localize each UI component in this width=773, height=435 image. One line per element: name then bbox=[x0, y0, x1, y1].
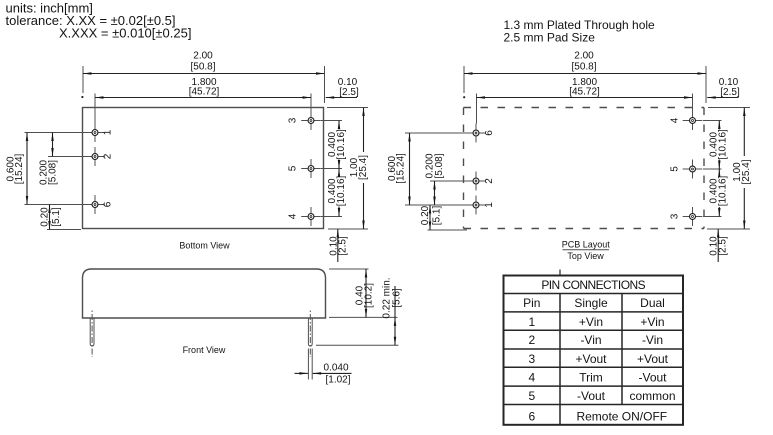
pin 4 (pcb layout) bbox=[683, 111, 703, 130]
svg-text:2.5 mm Pad Size: 2.5 mm Pad Size bbox=[504, 31, 596, 45]
dimension 0.600 pcb layout left bbox=[387, 133, 471, 205]
pin 5 (pcb layout) bbox=[683, 160, 703, 179]
svg-text:[2.5]: [2.5] bbox=[339, 87, 359, 98]
svg-text:2: 2 bbox=[103, 153, 114, 159]
front view left pin bbox=[90, 310, 94, 358]
svg-text:0.400[10.16]: 0.400[10.16] bbox=[327, 175, 347, 206]
svg-text:Top View: Top View bbox=[567, 251, 604, 261]
dimension 0.22 min front view bbox=[316, 277, 403, 345]
units/tolerance note bbox=[6, 1, 192, 41]
svg-text:Front View: Front View bbox=[183, 345, 226, 355]
svg-text:6: 6 bbox=[103, 201, 114, 207]
svg-text:[45.72]: [45.72] bbox=[189, 87, 220, 98]
front view right pin bbox=[308, 310, 312, 358]
svg-text:6: 6 bbox=[484, 130, 495, 136]
svg-text:Bottom View: Bottom View bbox=[179, 241, 230, 251]
dimension 0.200 bottom view left bbox=[39, 133, 90, 186]
svg-text:0.600[15.24]: 0.600[15.24] bbox=[387, 153, 407, 184]
dimension 0.200 pcb layout left bbox=[424, 153, 471, 205]
svg-text:1: 1 bbox=[484, 202, 495, 208]
dimension 0.10 bottom-right bottom view bbox=[328, 229, 348, 262]
svg-text:0.400[10.16]: 0.400[10.16] bbox=[708, 175, 728, 206]
svg-text:2.00: 2.00 bbox=[574, 51, 594, 62]
pin 4 (bottom view) bbox=[301, 207, 321, 226]
svg-text:[45.72]: [45.72] bbox=[569, 87, 600, 98]
svg-text:0.40[10.2]: 0.40[10.2] bbox=[354, 283, 374, 308]
svg-text:4: 4 bbox=[288, 213, 299, 219]
pin 6 (pcb layout) bbox=[466, 124, 486, 143]
svg-text:PIN CONNECTIONS: PIN CONNECTIONS bbox=[541, 278, 645, 292]
table header row bbox=[523, 296, 665, 310]
svg-text:1.00[25.4]: 1.00[25.4] bbox=[732, 159, 752, 184]
svg-text:0.20[5.1]: 0.20[5.1] bbox=[420, 205, 443, 225]
svg-text:5: 5 bbox=[528, 389, 535, 403]
svg-text:-Vout: -Vout bbox=[577, 389, 606, 403]
svg-text:1.00[25.4]: 1.00[25.4] bbox=[349, 155, 369, 180]
svg-text:0.22 min.[5.6]: 0.22 min.[5.6] bbox=[382, 277, 403, 318]
table row pin 2 bbox=[528, 333, 663, 347]
svg-text:[50.8]: [50.8] bbox=[571, 62, 596, 73]
dimension 1.800 pcb layout bbox=[463, 77, 692, 124]
svg-text:[1.02]: [1.02] bbox=[325, 375, 350, 386]
svg-text:0.600[15.24]: 0.600[15.24] bbox=[5, 153, 25, 184]
pin 1 (bottom view) bbox=[85, 123, 105, 142]
dimension 0.40 front view bbox=[329, 269, 398, 317]
dimension 0.10 bottom-right pcb layout bbox=[709, 229, 729, 262]
dimension 0.20 pcb layout left bbox=[420, 205, 467, 230]
table row pin 5 bbox=[528, 389, 675, 403]
table row pin 3 bbox=[528, 352, 668, 366]
svg-text:+Vout: +Vout bbox=[637, 352, 669, 366]
dimension 0.400 lower bottom view right bbox=[321, 169, 347, 217]
svg-text:Trim: Trim bbox=[579, 370, 603, 384]
dimension 1.800 bottom view bbox=[81, 77, 311, 123]
dimension 2.00 bottom view bbox=[83, 51, 325, 104]
svg-text:0.10[2.5]: 0.10[2.5] bbox=[328, 236, 348, 256]
table row pin 1 bbox=[528, 315, 664, 329]
table row pin 4 bbox=[528, 370, 667, 384]
svg-text:0.20[5.1]: 0.20[5.1] bbox=[39, 207, 62, 227]
svg-text:X.XXX = ±0.010[±0.25]: X.XXX = ±0.010[±0.25] bbox=[59, 26, 191, 41]
svg-text:+Vout: +Vout bbox=[575, 352, 607, 366]
svg-text:PCB Layout: PCB Layout bbox=[562, 240, 611, 250]
svg-text:0.400[10.16]: 0.400[10.16] bbox=[327, 129, 347, 160]
front view body bbox=[83, 269, 326, 318]
svg-text:0.040: 0.040 bbox=[323, 362, 348, 373]
svg-text:1: 1 bbox=[103, 129, 114, 135]
dimension 1.00 pcb layout right bbox=[707, 108, 752, 230]
svg-text:5: 5 bbox=[288, 165, 299, 171]
pin 3 (pcb layout) bbox=[683, 207, 703, 226]
dimension 2.00 pcb layout bbox=[464, 51, 706, 104]
table row pin 6 bbox=[528, 409, 667, 423]
svg-text:[2.5]: [2.5] bbox=[720, 87, 740, 98]
dimension 0.600 bottom view left bbox=[5, 133, 90, 205]
svg-text:2.00: 2.00 bbox=[193, 51, 213, 62]
svg-text:5: 5 bbox=[670, 166, 681, 172]
svg-text:-Vout: -Vout bbox=[638, 370, 667, 384]
pin connections table frame bbox=[504, 270, 684, 425]
svg-text:Remote ON/OFF: Remote ON/OFF bbox=[576, 409, 667, 423]
pin 6 (bottom view) bbox=[85, 195, 105, 214]
svg-text:Pin: Pin bbox=[523, 296, 540, 310]
bottom view outline bbox=[83, 108, 324, 229]
dimension 0.400 upper pcb layout right bbox=[703, 121, 728, 170]
dimension 0.20 bottom view left bbox=[39, 205, 81, 230]
svg-text:4: 4 bbox=[670, 117, 681, 123]
svg-text:common: common bbox=[629, 389, 675, 403]
svg-text:3: 3 bbox=[528, 352, 535, 366]
svg-text:0.200[5.08]: 0.200[5.08] bbox=[39, 160, 59, 185]
dimension 0.040 front view bbox=[295, 349, 352, 386]
svg-text:[50.8]: [50.8] bbox=[190, 62, 215, 73]
pcb layout label bbox=[562, 240, 611, 261]
svg-text:3: 3 bbox=[670, 213, 681, 219]
svg-text:Single: Single bbox=[574, 296, 608, 310]
svg-text:Dual: Dual bbox=[640, 296, 665, 310]
svg-text:0.10[2.5]: 0.10[2.5] bbox=[709, 236, 729, 256]
svg-text:2: 2 bbox=[528, 333, 535, 347]
svg-text:2: 2 bbox=[484, 178, 495, 184]
pin 2 (pcb layout) bbox=[466, 172, 486, 191]
pin 2 (bottom view) bbox=[85, 147, 105, 166]
dimension 1.00 bottom view right bbox=[327, 108, 369, 230]
dimension 0.10 top-right bottom view bbox=[326, 77, 359, 99]
pin 3 (bottom view) bbox=[301, 111, 321, 130]
svg-text:+Vin: +Vin bbox=[640, 315, 664, 329]
plated hole note bbox=[504, 18, 656, 45]
dimension 0.400 lower pcb layout right bbox=[703, 169, 728, 217]
svg-text:+Vin: +Vin bbox=[579, 315, 603, 329]
pin 5 (bottom view) bbox=[301, 159, 321, 178]
dimension 0.10 top-right pcb layout bbox=[707, 77, 740, 99]
svg-text:-Vin: -Vin bbox=[642, 333, 663, 347]
pcb layout dashed outline bbox=[464, 108, 705, 229]
svg-text:-Vin: -Vin bbox=[580, 333, 601, 347]
dimension 0.400 upper bottom view right bbox=[321, 121, 347, 169]
svg-text:3: 3 bbox=[288, 117, 299, 123]
svg-text:0.400[10.16]: 0.400[10.16] bbox=[708, 129, 728, 160]
svg-text:1: 1 bbox=[528, 315, 535, 329]
pin 1 (pcb layout) bbox=[466, 196, 486, 215]
svg-text:0.200[5.08]: 0.200[5.08] bbox=[424, 153, 445, 178]
svg-text:4: 4 bbox=[528, 370, 535, 384]
svg-text:6: 6 bbox=[528, 409, 535, 423]
